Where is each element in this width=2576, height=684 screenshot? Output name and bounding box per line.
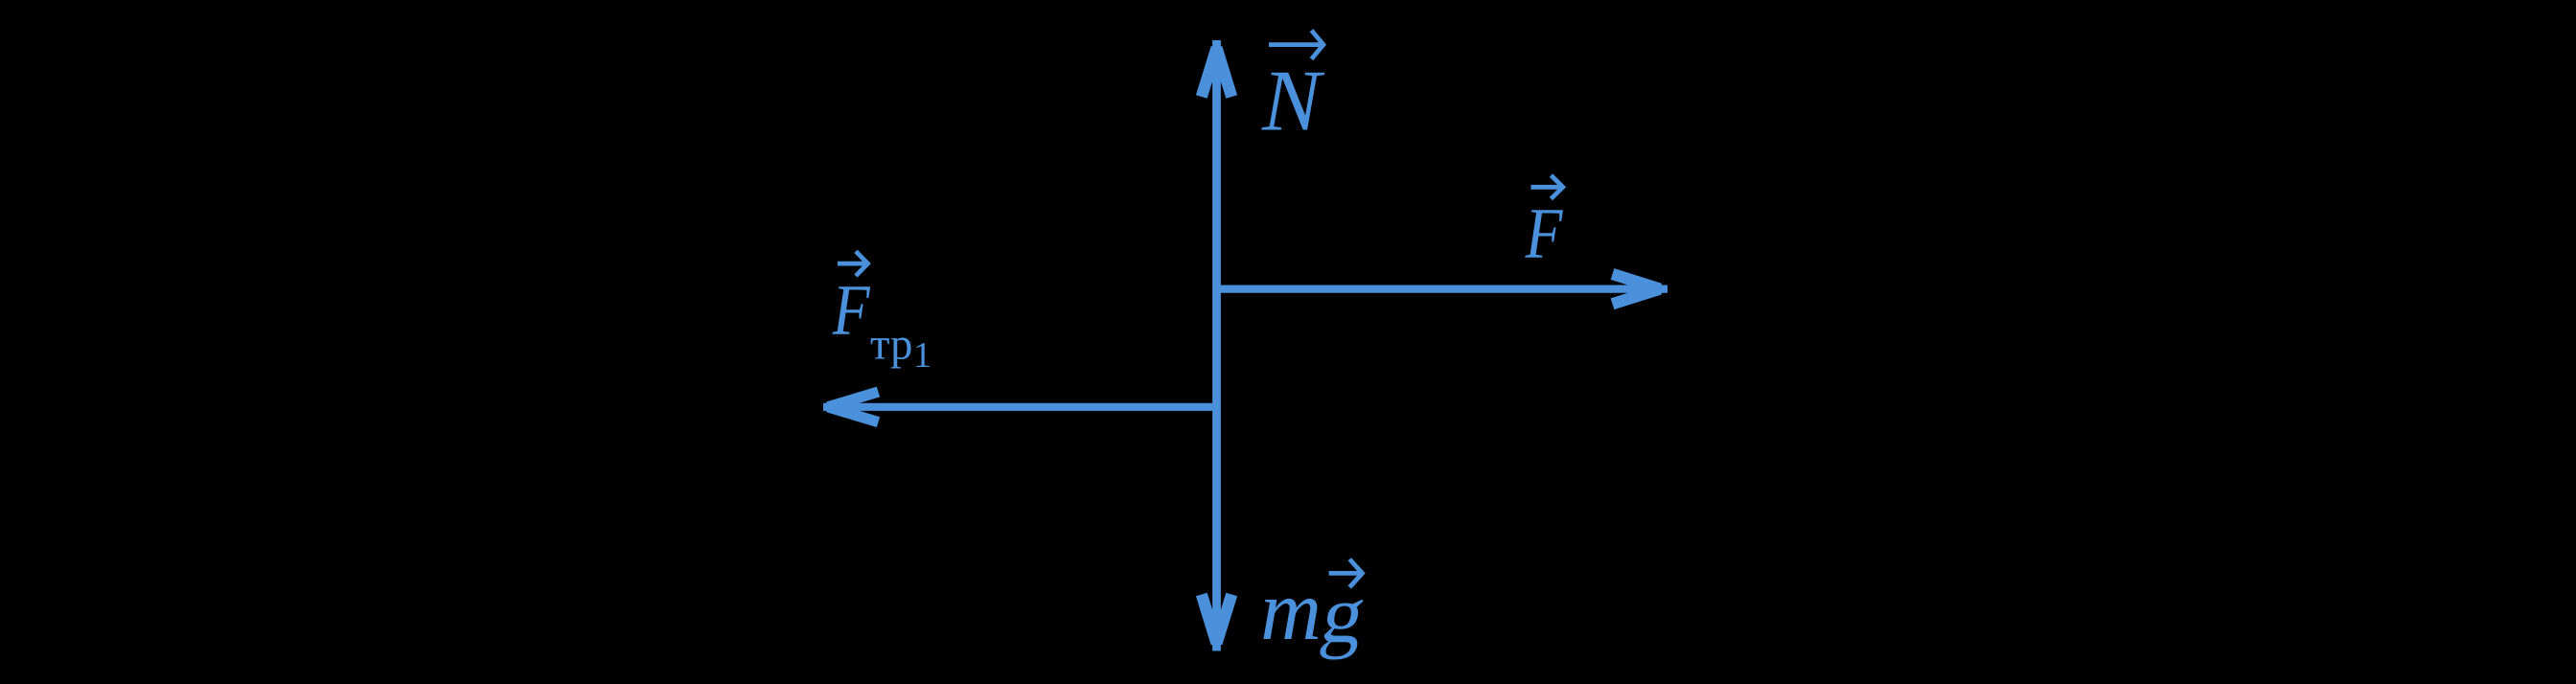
svg-text:N: N <box>1261 52 1325 149</box>
svg-text:F: F <box>1525 194 1563 274</box>
svg-text:тр: тр <box>870 319 912 369</box>
svg-text:1: 1 <box>913 335 931 376</box>
svg-text:F: F <box>832 271 870 351</box>
svg-text:m: m <box>1260 564 1322 658</box>
